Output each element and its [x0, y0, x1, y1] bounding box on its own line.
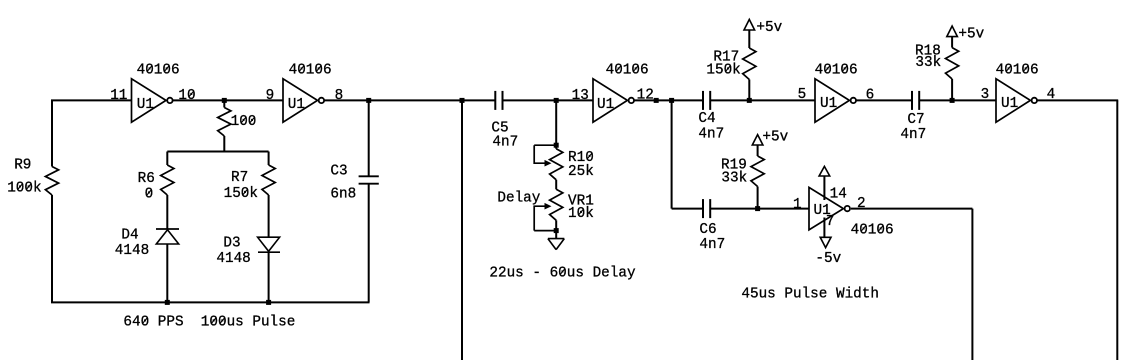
svg-text:4: 4: [1047, 87, 1056, 103]
svg-text:40106: 40106: [815, 63, 858, 79]
svg-text:6: 6: [866, 88, 875, 104]
svg-text:C4: C4: [698, 111, 715, 127]
svg-text:C3: C3: [330, 164, 347, 180]
svg-text:22us - 60us Delay: 22us - 60us Delay: [489, 266, 636, 282]
svg-text:13: 13: [572, 88, 589, 104]
svg-text:150k: 150k: [706, 63, 740, 79]
svg-text:4148: 4148: [115, 243, 149, 259]
svg-text:C7: C7: [907, 112, 924, 128]
svg-text:C6: C6: [699, 222, 716, 238]
svg-text:11: 11: [110, 88, 127, 104]
svg-text:12: 12: [637, 88, 654, 104]
svg-text:10: 10: [178, 88, 195, 104]
svg-text:25k: 25k: [568, 164, 594, 180]
svg-text:4n7: 4n7: [900, 127, 926, 143]
svg-text:10k: 10k: [568, 206, 594, 222]
svg-text:R9: R9: [14, 158, 31, 174]
svg-text:1: 1: [793, 197, 802, 213]
svg-text:40106: 40106: [851, 222, 894, 238]
svg-text:8: 8: [335, 88, 344, 104]
svg-text:0: 0: [145, 187, 154, 203]
svg-text:D4: D4: [121, 228, 138, 244]
svg-text:150k: 150k: [224, 186, 258, 202]
svg-text:+5v: +5v: [756, 20, 782, 36]
svg-text:R7: R7: [231, 170, 248, 186]
svg-text:6n8: 6n8: [330, 186, 356, 202]
svg-text:7: 7: [826, 214, 835, 230]
svg-text:4n7: 4n7: [698, 127, 724, 143]
svg-text:100: 100: [231, 114, 257, 130]
svg-text:3: 3: [981, 87, 990, 103]
svg-text:33k: 33k: [721, 171, 747, 187]
svg-text:Delay: Delay: [497, 191, 540, 207]
svg-text:+5v: +5v: [762, 130, 788, 146]
svg-text:+5v: +5v: [958, 27, 984, 43]
svg-text:U1: U1: [137, 97, 154, 113]
svg-text:100k: 100k: [7, 181, 41, 197]
svg-text:2: 2: [857, 196, 866, 212]
svg-text:U1: U1: [1001, 96, 1018, 112]
svg-text:9: 9: [266, 88, 275, 104]
svg-text:D3: D3: [223, 236, 240, 252]
svg-text:U1: U1: [288, 97, 305, 113]
svg-text:40106: 40106: [606, 63, 649, 79]
svg-text:33k: 33k: [915, 55, 941, 71]
svg-text:640 PPS 100us Pulse: 640 PPS 100us Pulse: [123, 315, 295, 331]
svg-text:-5v: -5v: [815, 251, 841, 267]
svg-text:4n7: 4n7: [492, 135, 518, 151]
svg-text:40106: 40106: [289, 63, 332, 79]
svg-text:U1: U1: [597, 97, 614, 113]
svg-text:5: 5: [798, 87, 807, 103]
svg-text:40106: 40106: [137, 63, 180, 79]
svg-text:4148: 4148: [216, 251, 250, 267]
svg-text:45us Pulse Width: 45us Pulse Width: [741, 287, 879, 303]
svg-text:U1: U1: [820, 96, 837, 112]
svg-text:R6: R6: [138, 171, 155, 187]
svg-text:4n7: 4n7: [699, 237, 725, 253]
svg-text:14: 14: [830, 187, 847, 203]
svg-text:40106: 40106: [996, 63, 1039, 79]
